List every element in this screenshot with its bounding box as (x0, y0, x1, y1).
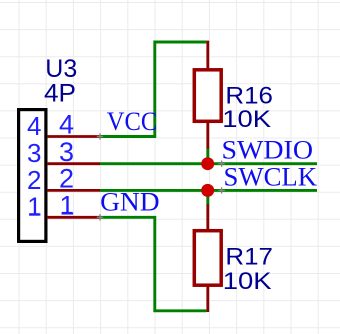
net label SWCLK (224, 162, 318, 191)
pin 2 (47, 189, 100, 192)
svg-text:4P: 4P (44, 79, 76, 107)
resistor R16 bottom pin (206, 122, 209, 149)
resistor R17 value 10K (223, 268, 272, 295)
pin 4 number (59, 110, 74, 140)
svg-text:SWCLK: SWCLK (224, 162, 318, 191)
svg-text:3: 3 (27, 138, 41, 168)
wire SWCLK net (100, 189, 317, 192)
pin 1 number (59, 190, 74, 220)
wire segment SWCLK junction to R17 top (206, 190, 209, 205)
svg-text:GND: GND (100, 187, 160, 216)
svg-text:4: 4 (27, 111, 41, 141)
svg-text:2: 2 (27, 165, 41, 195)
wire end marker on SWDIO wire (218, 161, 224, 167)
wire SWDIO net (100, 162, 317, 165)
net label GND (100, 187, 160, 216)
resistor R16 value 10K (222, 106, 271, 133)
pin 2 name (27, 165, 41, 195)
junction dot SWCLK node (201, 184, 214, 197)
svg-text:4: 4 (59, 110, 74, 140)
wire segment R16 bottom to SWDIO junction (206, 148, 209, 164)
connector U3 refdes U3 (45, 55, 77, 83)
pin 4 name (27, 111, 41, 141)
resistor R17 top pin (206, 205, 209, 231)
connector U3 body (19, 110, 46, 242)
resistor R16 top pin (206, 41, 209, 69)
svg-text:1: 1 (27, 192, 41, 222)
svg-text:10K: 10K (222, 106, 271, 133)
wire end marker at pin 4 (97, 133, 103, 139)
wire GND net (100, 217, 206, 310)
pin 3 number (59, 137, 74, 167)
resistor R17 bottom pin (206, 286, 209, 313)
pin 2 number (59, 164, 74, 194)
resistor R17 body (194, 231, 221, 286)
connector U3 value 4P (44, 79, 76, 107)
resistor R17 refdes R17 (225, 244, 273, 271)
junction dot SWDIO node (201, 157, 214, 170)
wire VCC net (100, 42, 206, 137)
svg-text:VCC: VCC (107, 107, 158, 136)
svg-text:2: 2 (59, 164, 74, 194)
wire end marker at pin 1 (97, 214, 103, 220)
svg-text:3: 3 (59, 137, 74, 167)
svg-text:1: 1 (59, 190, 74, 220)
pin 3 (47, 162, 100, 165)
svg-text:SWDIO: SWDIO (222, 135, 314, 164)
wire end marker on SWCLK wire (218, 187, 224, 193)
pin 4 (47, 135, 100, 138)
resistor R16 refdes R16 (225, 83, 273, 110)
pin 1 name (27, 192, 41, 222)
resistor R16 body (194, 70, 221, 122)
pin 1 (47, 216, 100, 219)
pin 3 name (27, 138, 41, 168)
svg-text:10K: 10K (223, 268, 272, 295)
svg-text:R17: R17 (225, 244, 273, 271)
net label SWDIO (222, 135, 314, 164)
net label VCC (107, 107, 158, 136)
